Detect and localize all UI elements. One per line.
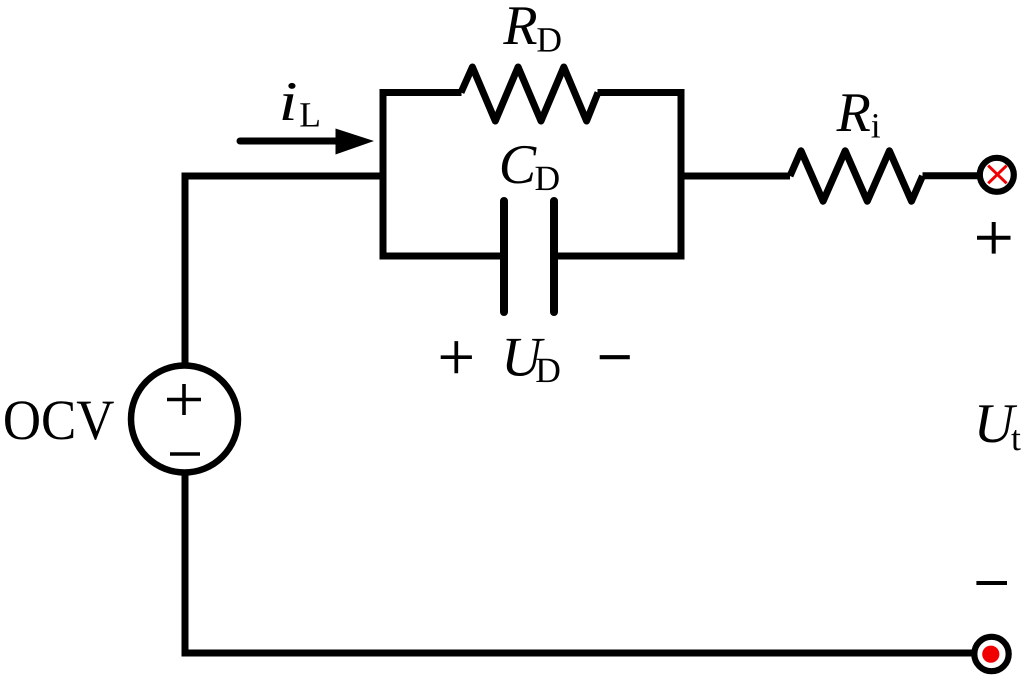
terminal positive xyxy=(980,158,1014,192)
svg-text:D: D xyxy=(536,19,562,59)
svg-text:i: i xyxy=(279,71,298,133)
svg-text:R: R xyxy=(502,0,537,57)
svg-text:D: D xyxy=(535,158,561,198)
wire xyxy=(554,93,681,257)
capacitor CD xyxy=(504,201,554,312)
wire xyxy=(383,93,504,257)
red dot marker xyxy=(982,646,999,663)
plus sign xyxy=(441,341,472,373)
label plus terminal xyxy=(977,222,1011,254)
wire xyxy=(185,475,976,653)
resistor Ri xyxy=(790,151,923,201)
plus sign xyxy=(167,384,201,415)
svg-text:OCV: OCV xyxy=(3,389,115,452)
wire xyxy=(923,172,983,179)
minus sign xyxy=(600,355,630,359)
terminal negative xyxy=(974,637,1008,671)
svg-text:i: i xyxy=(871,106,881,146)
svg-text:C: C xyxy=(499,134,537,196)
wire xyxy=(185,176,387,363)
wire xyxy=(681,173,790,180)
svg-text:L: L xyxy=(299,95,321,135)
resistor RD xyxy=(461,67,598,121)
svg-text:t: t xyxy=(1011,418,1021,458)
red X marker xyxy=(988,166,1006,184)
svg-text:R: R xyxy=(836,82,871,144)
label minus terminal xyxy=(976,581,1007,585)
voltage source OCV xyxy=(131,366,238,473)
current arrow iL xyxy=(240,138,336,145)
svg-text:D: D xyxy=(535,350,561,390)
minus sign xyxy=(170,452,200,456)
